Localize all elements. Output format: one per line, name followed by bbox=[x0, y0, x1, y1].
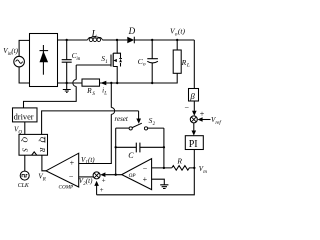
junction S1 source bbox=[116, 82, 118, 84]
svg-text:+: + bbox=[200, 110, 205, 119]
label R_S bbox=[86, 86, 95, 97]
svg-text:−: − bbox=[185, 104, 190, 113]
wire PI to Vm and bottom feedback bbox=[97, 150, 195, 195]
OP minus input wire bbox=[152, 167, 172, 169]
svg-text:−: − bbox=[143, 164, 148, 173]
svg-text:PI: PI bbox=[189, 139, 198, 150]
svg-text:COMP: COMP bbox=[59, 185, 75, 191]
svg-text:S: S bbox=[92, 92, 95, 97]
label S1 bbox=[101, 54, 108, 65]
latch Qbar overbar bbox=[44, 137, 46, 143]
capacitor C_in bbox=[62, 40, 72, 83]
inductor L bbox=[88, 37, 103, 42]
reset wire from Qbar bbox=[42, 111, 139, 134]
svg-text:D: D bbox=[128, 26, 136, 36]
ground main bbox=[63, 83, 71, 92]
junction top C_in bbox=[66, 39, 68, 41]
CLK source circle bbox=[20, 171, 29, 180]
svg-text:+: + bbox=[70, 159, 75, 168]
resistor R_L bbox=[173, 40, 181, 73]
junction C_o bottom bbox=[151, 82, 153, 84]
svg-text:R: R bbox=[176, 157, 182, 166]
label C_in bbox=[72, 51, 81, 62]
label S2 bbox=[149, 116, 156, 127]
wire summer1 to PI bbox=[193, 123, 195, 131]
svg-text:+: + bbox=[102, 177, 106, 185]
ground at OP bbox=[160, 185, 168, 189]
svg-text:(t): (t) bbox=[88, 156, 95, 164]
svg-text:1: 1 bbox=[105, 60, 108, 65]
label Vo(t) bbox=[170, 27, 185, 38]
junction top C_o bbox=[151, 39, 153, 41]
PI box bbox=[185, 136, 203, 150]
label V1(t) bbox=[81, 156, 95, 166]
svg-text:o: o bbox=[143, 62, 146, 68]
junction node L-D-S1 bbox=[116, 39, 118, 41]
latch clock wedge bbox=[32, 152, 37, 155]
label V2(t) bbox=[79, 177, 93, 187]
svg-text:Q: Q bbox=[38, 137, 47, 143]
label V_R bbox=[38, 172, 45, 182]
capacitor C_o bbox=[147, 40, 158, 83]
wire latch S to CLK bbox=[24, 155, 26, 171]
svg-text:R: R bbox=[42, 177, 46, 182]
driver box bbox=[13, 108, 38, 122]
label V_Q bbox=[14, 126, 22, 136]
ac source Vin bbox=[14, 56, 25, 67]
V1 wire: comp plus input from R_S tap bbox=[79, 83, 115, 164]
junction Vm bbox=[193, 167, 195, 169]
integrator loop left vertical bbox=[115, 128, 117, 175]
driver gate wire bbox=[24, 65, 111, 108]
svg-text:L: L bbox=[91, 29, 97, 39]
summer2 circle bbox=[93, 172, 100, 179]
integrator right vertical bbox=[163, 128, 165, 168]
beta box bbox=[189, 89, 199, 102]
reset arrow onto S2 bbox=[136, 111, 141, 124]
svg-text:S: S bbox=[20, 148, 29, 152]
Vref arrow bbox=[198, 117, 211, 122]
svg-text:2: 2 bbox=[153, 122, 156, 127]
svg-text:β: β bbox=[189, 91, 195, 101]
svg-text:(t): (t) bbox=[178, 27, 186, 36]
svg-text:in: in bbox=[76, 57, 80, 62]
label Vin(t) bbox=[3, 47, 18, 57]
svg-text:−: − bbox=[69, 172, 74, 181]
transistor S1 (MOSFET) bbox=[111, 40, 122, 83]
top rail bbox=[58, 39, 195, 41]
arrow bottom into summer2 bbox=[94, 181, 99, 195]
svg-text:R: R bbox=[86, 86, 92, 95]
summer1 circle bbox=[190, 116, 197, 123]
svg-text:CLK: CLK bbox=[18, 183, 30, 189]
wire source top to bridge bbox=[19, 40, 29, 56]
svg-text:driver: driver bbox=[14, 112, 34, 121]
latch labels Q Qbar S R bbox=[20, 137, 47, 153]
arrow into PI bbox=[192, 131, 197, 136]
junction C right bbox=[163, 146, 165, 148]
svg-text:m: m bbox=[203, 170, 207, 175]
V2 wire: comp minus input from summer2 bbox=[79, 176, 94, 178]
resistor R_S bbox=[82, 79, 100, 86]
label Vref bbox=[211, 116, 221, 126]
svg-text:(t): (t) bbox=[11, 47, 18, 55]
junction ground/C_in bottom bbox=[66, 82, 68, 84]
wire beta to summer bbox=[193, 101, 195, 111]
resistor R zigzag bbox=[172, 166, 195, 171]
junction top R_L / Vo node bbox=[176, 39, 178, 41]
wire driver to latch (Q) bbox=[24, 122, 26, 134]
comparator COMP triangle bbox=[46, 153, 79, 187]
svg-text:R: R bbox=[181, 58, 187, 67]
label R_L bbox=[181, 58, 190, 69]
label Vm bbox=[199, 165, 207, 175]
svg-text:L: L bbox=[103, 92, 107, 97]
svg-text:(t): (t) bbox=[86, 177, 93, 185]
OP plus input wire to ground bbox=[152, 179, 165, 184]
wire Vo to beta bbox=[193, 40, 195, 89]
svg-text:reset: reset bbox=[115, 115, 129, 123]
bridge diode bbox=[40, 45, 49, 75]
RS latch box bbox=[19, 134, 48, 155]
svg-text:Q: Q bbox=[20, 137, 29, 143]
junction C left bbox=[115, 146, 117, 148]
svg-text:OP: OP bbox=[129, 173, 137, 179]
capacitor C bbox=[116, 143, 164, 153]
junction OP minus node bbox=[163, 167, 165, 169]
svg-text:C: C bbox=[128, 151, 134, 160]
op-amp OP triangle bbox=[122, 159, 152, 190]
bottom rail bbox=[58, 73, 178, 83]
diode D bbox=[127, 37, 134, 44]
junction V1 tap bbox=[110, 82, 112, 84]
label C_o bbox=[138, 57, 146, 68]
svg-text:L: L bbox=[186, 63, 190, 69]
junction OP output / integrator loop bbox=[115, 174, 117, 176]
arrow OP output into summer2 bbox=[100, 172, 121, 177]
svg-text:ref: ref bbox=[215, 121, 221, 126]
svg-text:+: + bbox=[100, 186, 104, 194]
current arrow i_L bbox=[100, 81, 106, 86]
wire latch R to comparator bbox=[42, 155, 46, 171]
wire source bottom to bridge bbox=[19, 67, 29, 83]
label i_L bbox=[102, 86, 107, 96]
arrow into summer1 bbox=[192, 111, 197, 116]
svg-text:+: + bbox=[143, 175, 148, 184]
svg-text:R: R bbox=[38, 147, 47, 153]
switch S2 bbox=[116, 123, 164, 130]
bridge rectifier box bbox=[30, 34, 58, 87]
